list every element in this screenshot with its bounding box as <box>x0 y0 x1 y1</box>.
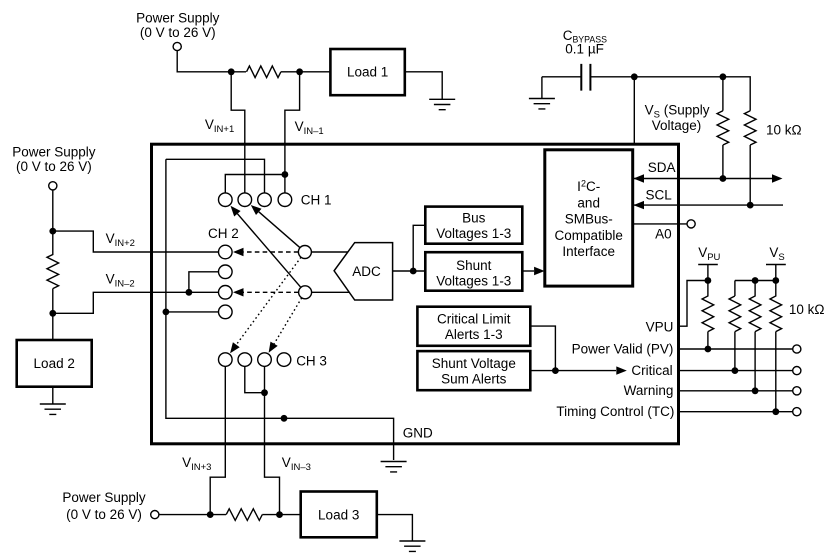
terminal power supply 2 <box>49 182 57 190</box>
svg-text:Load 2: Load 2 <box>34 356 75 371</box>
wire <box>262 514 300 516</box>
ground <box>40 404 66 414</box>
resistor Warning pullup <box>749 281 761 391</box>
terminal A0 <box>687 220 695 228</box>
terminal power supply 3 <box>151 510 159 518</box>
junction <box>705 346 712 353</box>
load 1 box <box>330 49 404 95</box>
junction <box>281 415 288 422</box>
terminal power supply 1 <box>173 42 181 50</box>
CH2 input pin 4 <box>219 305 233 319</box>
junction <box>772 408 779 415</box>
wire <box>311 252 350 292</box>
mux arrow B to CH3 pin3 <box>274 298 302 344</box>
junction <box>49 310 56 317</box>
svg-text:Voltages 1-3: Voltages 1-3 <box>436 274 511 289</box>
CH1 input pin 4 <box>278 193 292 207</box>
terminal TC <box>793 408 801 416</box>
resistor SDA pullup <box>717 77 729 179</box>
svg-text:Load 3: Load 3 <box>318 507 359 522</box>
junction <box>49 228 56 235</box>
svg-text:VS: VS <box>769 245 784 263</box>
svg-text:VIN+1: VIN+1 <box>205 117 234 135</box>
mux arrow B to CH1 pin1 <box>237 214 301 288</box>
wire VIN-2 <box>53 292 219 313</box>
svg-text:Load 1: Load 1 <box>347 65 388 80</box>
IC outer box <box>152 144 679 444</box>
resistor TC pullup <box>770 281 782 412</box>
svg-text:Bus: Bus <box>462 211 486 226</box>
capacitor C_BYPASS <box>581 64 590 91</box>
junction <box>720 73 727 80</box>
wire VIN-3 <box>265 366 280 514</box>
svg-text:Voltages 1-3: Voltages 1-3 <box>436 226 511 241</box>
mux arrow B to CH2 pin3 <box>244 291 299 293</box>
wire <box>52 387 54 404</box>
svg-text:GND: GND <box>403 425 433 440</box>
svg-text:Power Valid (PV): Power Valid (PV) <box>572 342 674 357</box>
junction <box>186 289 193 296</box>
CH3 input pin 3 <box>258 353 272 367</box>
svg-text:Power Supply: Power Supply <box>136 10 220 25</box>
CH1 input pin 1 <box>219 193 233 207</box>
load 2 box <box>17 340 92 387</box>
shunt voltages box <box>425 252 522 291</box>
wire VIN+1 <box>231 72 245 193</box>
junction <box>207 511 214 518</box>
svg-text:A0: A0 <box>655 227 672 242</box>
terminal PV <box>793 345 801 353</box>
junction <box>720 175 727 182</box>
terminal Critical <box>793 367 801 375</box>
wire TC <box>679 411 793 413</box>
svg-text:I2C-: I2C- <box>577 179 600 195</box>
wire SCL <box>633 204 783 206</box>
CH1 input pin 2 <box>238 193 252 207</box>
svg-text:ADC: ADC <box>352 264 381 279</box>
junction <box>552 367 559 374</box>
wire VIN+2 <box>53 231 219 252</box>
resistor PV pullup <box>702 281 714 350</box>
resistor shunt R3 <box>226 509 262 521</box>
svg-text:SCL: SCL <box>646 188 673 203</box>
wire A0 <box>633 223 687 225</box>
resistor Critical pullup <box>729 296 741 371</box>
wire <box>159 514 226 516</box>
svg-text:(0 V to 26 V): (0 V to 26 V) <box>140 25 216 40</box>
wire VIN+3 <box>210 366 225 514</box>
svg-text:Critical Limit: Critical Limit <box>437 312 511 327</box>
CH2 input pin 2 <box>219 265 233 279</box>
wire <box>405 72 442 100</box>
wire VIN-1 <box>285 72 300 193</box>
arrow to interface <box>522 270 534 272</box>
ground <box>381 462 407 472</box>
arrow to critical pin <box>616 366 627 374</box>
resistor shunt R1 <box>247 66 281 78</box>
wire PV <box>679 348 793 350</box>
junction <box>631 73 638 80</box>
svg-text:CH 2: CH 2 <box>208 226 239 241</box>
ground <box>529 99 555 109</box>
arrowhead SCL into U1 <box>634 201 645 209</box>
wire Critical <box>679 370 793 372</box>
wire VS <box>633 77 635 144</box>
svg-text:Compatible: Compatible <box>555 228 623 243</box>
CH3 input pin 2 <box>238 353 252 367</box>
svg-text:Warning: Warning <box>624 383 674 398</box>
wire VPU rail <box>679 281 708 327</box>
svg-text:Sum Alerts: Sum Alerts <box>441 372 507 387</box>
svg-text:Shunt Voltage: Shunt Voltage <box>432 356 516 371</box>
wire CH1 <box>225 175 285 194</box>
svg-text:SDA: SDA <box>648 160 676 175</box>
svg-text:10 kΩ: 10 kΩ <box>766 122 802 137</box>
wire <box>177 51 246 72</box>
junction <box>752 387 759 394</box>
svg-text:(0 V to 26 V): (0 V to 26 V) <box>16 159 92 174</box>
svg-text:VIN–2: VIN–2 <box>106 271 135 289</box>
ground <box>429 99 455 109</box>
ground <box>399 541 425 551</box>
wire <box>166 311 219 313</box>
resistor shunt R2 <box>47 231 59 313</box>
arrowhead SDA into U1 <box>634 174 645 182</box>
critical limit alerts box <box>417 307 530 346</box>
svg-text:Shunt: Shunt <box>456 258 492 273</box>
svg-text:(0 V to 26 V): (0 V to 26 V) <box>66 507 142 522</box>
mux node B <box>299 286 312 299</box>
wire VS rail <box>735 281 776 297</box>
shunt voltage sum alerts box <box>417 351 530 390</box>
junction <box>772 277 779 284</box>
junction <box>276 511 283 518</box>
mux arrow A to CH1 pin2 <box>259 212 300 248</box>
junction <box>282 171 289 178</box>
junction <box>732 367 739 374</box>
terminal VPU bar <box>698 265 718 281</box>
terminal VS bar <box>766 265 786 281</box>
wire Warning <box>679 390 793 392</box>
mux arrow A to CH3 pin1 <box>236 257 301 345</box>
svg-text:Power Supply: Power Supply <box>12 144 96 159</box>
CH3 input pin 4 <box>277 353 291 367</box>
wire <box>393 225 426 271</box>
junction <box>261 389 268 396</box>
svg-text:SMBus-: SMBus- <box>565 212 613 227</box>
svg-text:and: and <box>577 195 600 210</box>
mux arrow A to CH2 pin1 <box>244 251 299 253</box>
mux node A <box>298 246 311 259</box>
wire <box>52 313 54 340</box>
load 3 box <box>301 492 377 538</box>
wire SDA <box>633 178 772 180</box>
wire CH3 pin2 <box>245 366 265 392</box>
arrowhead SDA right <box>772 174 783 182</box>
CH3 input pin 1 <box>219 353 233 367</box>
junction <box>228 68 235 75</box>
resistor SCL pullup <box>744 111 756 205</box>
svg-text:10 kΩ: 10 kΩ <box>789 302 825 317</box>
ADC block <box>334 243 393 300</box>
svg-text:CH 1: CH 1 <box>301 192 332 207</box>
svg-text:Alerts 1-3: Alerts 1-3 <box>445 327 503 342</box>
wire alerts <box>530 326 616 371</box>
svg-text:Voltage): Voltage) <box>652 118 702 133</box>
svg-text:VPU: VPU <box>698 245 720 263</box>
svg-text:VIN+2: VIN+2 <box>106 231 135 249</box>
CH2 input pin 1 <box>219 245 233 259</box>
wire CH2 pin2 <box>189 272 219 293</box>
svg-text:Timing Control (TC): Timing Control (TC) <box>556 404 674 419</box>
junction <box>163 309 170 316</box>
junction <box>747 202 754 209</box>
svg-text:VIN–3: VIN–3 <box>282 455 311 473</box>
bus voltages box <box>425 207 522 244</box>
CH1 input pin 3 <box>258 193 272 207</box>
svg-text:Critical: Critical <box>631 363 672 378</box>
wire GND net <box>166 159 394 460</box>
CH2 input pin 3 <box>219 286 233 300</box>
wire <box>52 190 54 231</box>
svg-text:Interface: Interface <box>562 244 615 259</box>
wire <box>281 71 331 73</box>
wire <box>377 515 413 541</box>
svg-text:0.1 µF: 0.1 µF <box>565 42 604 57</box>
wire <box>542 77 750 111</box>
svg-text:VIN–1: VIN–1 <box>295 119 324 137</box>
junction <box>705 277 712 284</box>
svg-text:CH 3: CH 3 <box>296 354 327 369</box>
svg-text:VPU: VPU <box>646 319 674 334</box>
wire <box>541 77 543 99</box>
junction <box>410 268 417 275</box>
terminal Warning <box>793 387 801 395</box>
svg-text:Power Supply: Power Supply <box>62 490 146 505</box>
i2c interface box U1 <box>545 150 633 286</box>
junction <box>296 68 303 75</box>
svg-text:VIN+3: VIN+3 <box>182 455 211 473</box>
junction <box>752 277 759 284</box>
